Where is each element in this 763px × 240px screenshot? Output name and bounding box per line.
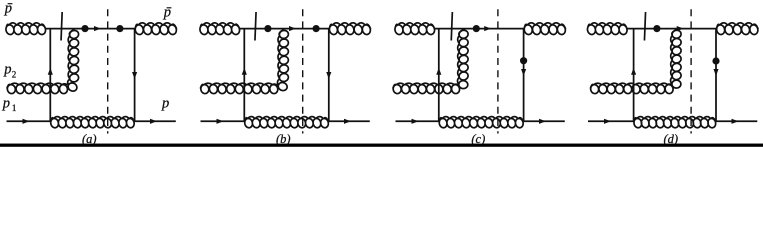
quark line right vertical (c) [523, 29, 525, 122]
quark line left vertical (a) [49, 29, 51, 122]
final-state cut dashed line (d) [690, 9, 692, 133]
svg-text:p: p [161, 96, 169, 112]
gluon from p2, L-shaped up to top line (a) [7, 30, 79, 93]
vertex dot left (c) [473, 25, 480, 32]
gluon top-left (a) [6, 23, 46, 35]
quark line right vertical (d) [715, 29, 717, 122]
incoming quark p1 line (c) [396, 120, 439, 122]
arrow up on left vertical (d) [631, 68, 636, 75]
quark line top (a) [45, 28, 135, 30]
outgoing quark p line (c) [524, 120, 565, 122]
bar mark on top propagator (c) [451, 12, 452, 41]
svg-text:p: p [163, 5, 171, 21]
incoming quark p1 line (d) [588, 120, 634, 122]
vertex dot right (a) [116, 25, 123, 32]
arrow down on right vertical (d) [713, 69, 718, 76]
bar mark on top propagator (d) [644, 12, 645, 41]
arrow on incoming quark (a) [23, 119, 30, 124]
bar mark on top propagator (b) [255, 12, 256, 41]
outgoing quark p line (d) [716, 120, 757, 122]
arrow on outgoing quark (a) [150, 119, 157, 124]
vertex dot right (c) [520, 57, 527, 64]
final-state cut dashed line (a) [107, 9, 109, 133]
arrow on incoming quark (d) [604, 119, 611, 124]
outgoing quark p line (b) [329, 120, 370, 122]
gluon top-left (c) [395, 23, 435, 35]
vertex dot left (d) [653, 25, 660, 32]
bottom rule bar [0, 144, 763, 147]
quark line left vertical (b) [243, 29, 245, 122]
svg-text:p: p [4, 1, 12, 17]
gluon bottom exchange (c) [439, 117, 523, 128]
incoming quark p1 line (a) [7, 120, 51, 122]
gluon bottom exchange (b) [245, 117, 329, 128]
svg-text:p: p [3, 62, 11, 78]
vertex dot left (b) [264, 25, 271, 32]
bar mark on top propagator (a) [61, 12, 62, 41]
arrow up on left vertical (c) [436, 68, 441, 75]
arrow down on right vertical (c) [521, 69, 526, 76]
gluon bottom exchange (a) [51, 117, 134, 128]
quark line top (c) [434, 28, 524, 30]
incoming quark p1 line (b) [201, 120, 245, 122]
gluon from p2, L-shaped up to top line (c) [393, 30, 468, 93]
arrow on outgoing quark (c) [539, 119, 546, 124]
final-state cut dashed line (b) [302, 9, 304, 133]
arrow on top quark line (d) [677, 26, 684, 31]
gluon top-left (d) [587, 23, 627, 35]
svg-text:p: p [2, 95, 10, 111]
gluon from p2, L-shaped up to top line (d) [591, 30, 682, 93]
arrow on top quark line (b) [289, 26, 296, 31]
arrow on top quark line (a) [94, 26, 101, 31]
arrow on outgoing quark (b) [344, 119, 351, 124]
vertex dot left (a) [81, 25, 88, 32]
quark line right vertical (b) [328, 29, 330, 122]
arrow down on right vertical (a) [132, 72, 137, 79]
gluon top-right (d) [717, 23, 759, 35]
final-state cut dashed line (c) [497, 9, 499, 133]
svg-text:2: 2 [12, 69, 17, 79]
vertex dot right (d) [712, 57, 719, 64]
arrow on outgoing quark (d) [732, 119, 739, 124]
arrow on incoming quark (b) [217, 119, 224, 124]
gluon top-right (a) [135, 23, 176, 35]
svg-text:1: 1 [12, 103, 17, 113]
arrow on top quark line (c) [484, 26, 491, 31]
gluon top-left (b) [200, 23, 240, 35]
quark line top (d) [627, 28, 717, 30]
arrow up on left vertical (a) [48, 68, 53, 75]
quark line top (b) [239, 28, 329, 30]
gluon from p2, L-shaped up to top line (b) [201, 30, 289, 93]
gluon bottom exchange (d) [634, 117, 716, 128]
quark line right vertical (a) [134, 29, 136, 122]
gluon top-right (c) [524, 23, 565, 35]
gluon top-right (b) [329, 23, 370, 35]
outgoing quark p line (a) [135, 120, 176, 122]
arrow on incoming quark (c) [412, 119, 419, 124]
quark line left vertical (c) [438, 29, 440, 122]
arrow down on right vertical (b) [326, 72, 331, 79]
quark line left vertical (d) [633, 29, 635, 122]
vertex dot right (b) [313, 25, 320, 32]
arrow up on left vertical (b) [242, 68, 247, 75]
